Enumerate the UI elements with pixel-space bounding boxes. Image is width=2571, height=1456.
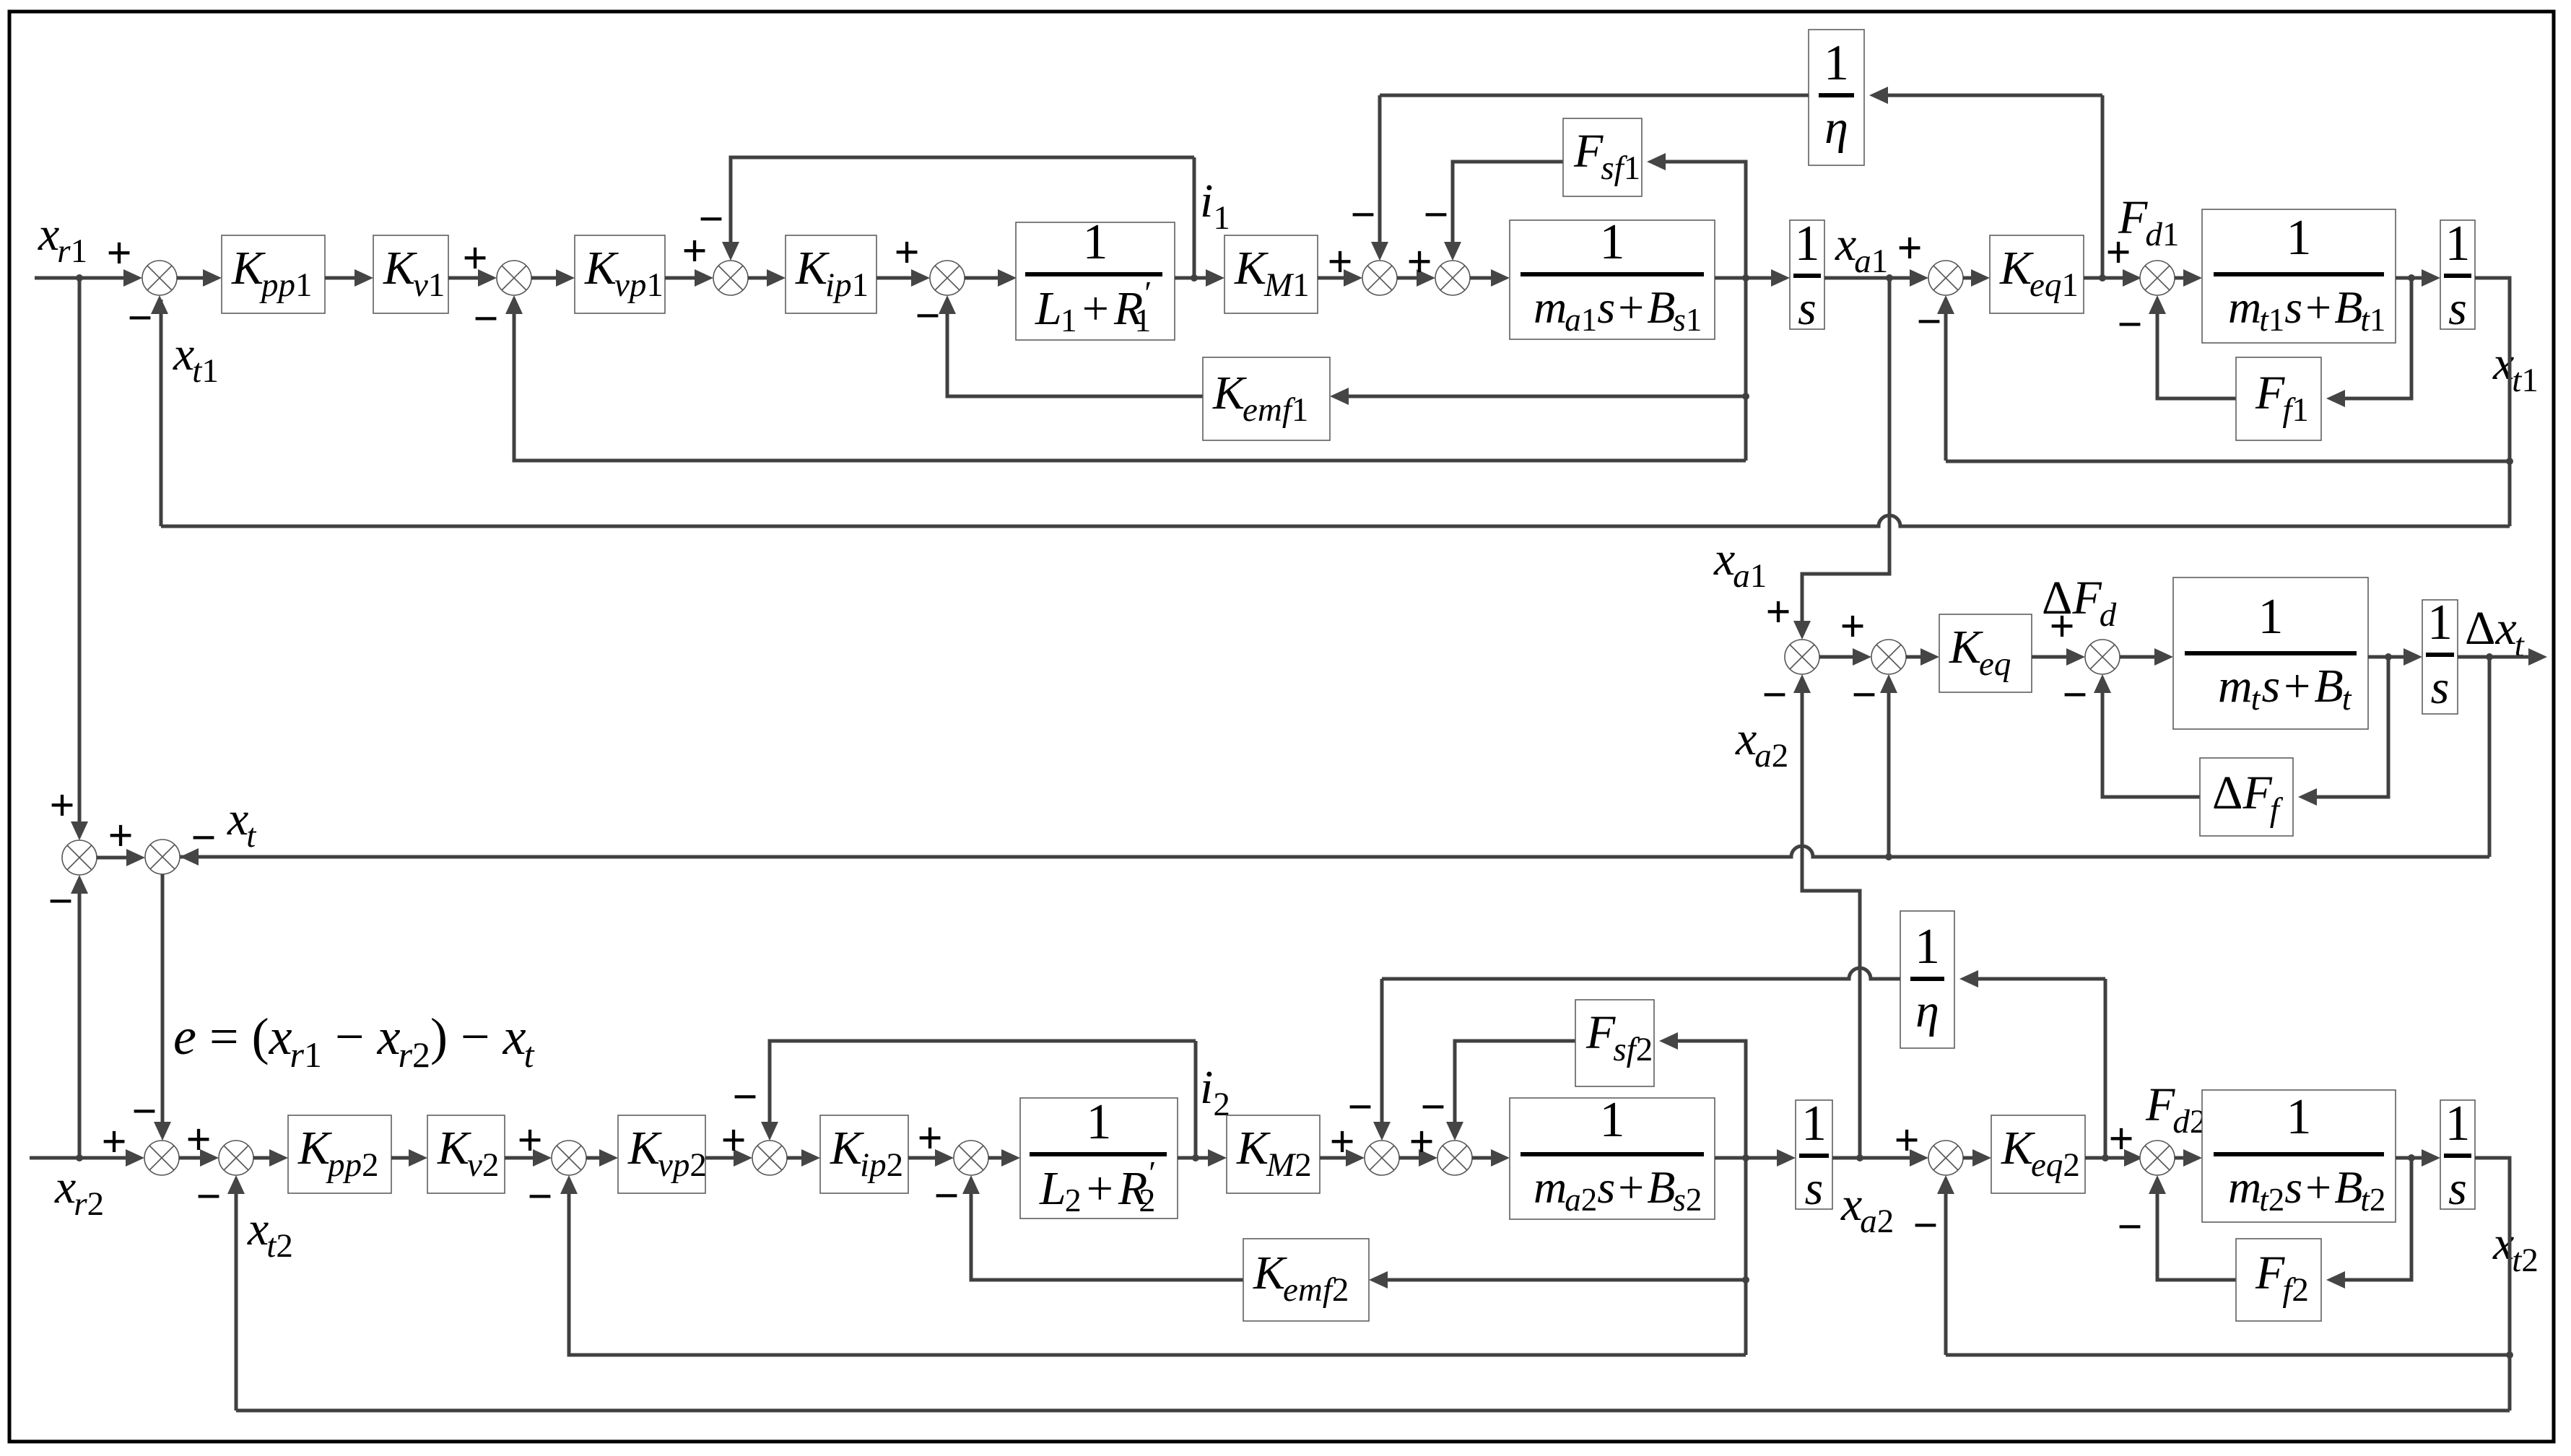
sum D7 minus sign — [1420, 1083, 1445, 1132]
wire D3 to Kvp2 — [586, 1149, 618, 1167]
sum S4 minus sign — [915, 292, 940, 341]
svg-text:−: − — [732, 1073, 757, 1122]
sum B plus sign — [108, 811, 133, 860]
wire i2 junction riser — [1194, 1041, 1198, 1158]
sum C3 minus sign — [2062, 671, 2087, 720]
sum D1 minus sign — [131, 1087, 157, 1136]
wire 1/eta2 output to D6 — [1382, 968, 1900, 979]
svg-text:1: 1 — [2287, 1089, 2312, 1145]
wire velocity node riser to Fsf1 — [1647, 153, 1749, 461]
svg-text:+: + — [1897, 224, 1922, 273]
block KM2 — [1227, 1115, 1320, 1193]
sum S3 — [713, 261, 748, 295]
svg-text:1: 1 — [1600, 1092, 1625, 1148]
wire B down to D1 (error e) — [154, 874, 171, 1141]
sum S4 plus sign — [894, 228, 919, 277]
sum C2 plus sign — [1840, 602, 1865, 651]
sum A minus sign — [48, 877, 73, 926]
sum E7 — [1928, 1141, 1963, 1175]
svg-text:1: 1 — [1087, 1094, 1112, 1150]
block 1/eta (2) — [1900, 911, 1954, 1048]
sum B — [145, 840, 180, 874]
svg-text:1: 1 — [2427, 595, 2453, 650]
wire eta riser — [2101, 95, 2105, 278]
svg-text:mt2s+Bt2: mt2s+Bt2 — [2228, 1161, 2385, 1218]
sum C2 minus sign — [1851, 671, 1876, 720]
block Kv1 — [373, 235, 448, 313]
wire mt2 to integrator with Ff2 junction — [2396, 1149, 2440, 1167]
wire E8 to mt2 block — [2175, 1149, 2202, 1167]
wire middle output — [2458, 648, 2547, 666]
wire xt1 output corner — [2475, 278, 2513, 526]
node xt1 feedback label — [173, 328, 219, 390]
svg-text:+: + — [101, 1117, 126, 1167]
sum D3 plus sign — [517, 1116, 542, 1165]
svg-text:mt1s+Bt1: mt1s+Bt1 — [2228, 282, 2385, 338]
wire S8 to mt1 block — [2175, 269, 2202, 287]
sum C2 — [1871, 640, 1906, 674]
sum E8 plus sign — [2108, 1115, 2133, 1164]
sum D2 — [219, 1141, 253, 1175]
node xt1 output label — [2492, 337, 2539, 399]
node dxt label — [2465, 602, 2525, 664]
wire Ff1 output into S8 — [2149, 295, 2236, 398]
svg-text:1: 1 — [1801, 1096, 1827, 1151]
wire Kv1 to S2 — [448, 269, 497, 287]
svg-text:−: − — [1423, 191, 1448, 240]
node xa1 label row1 — [1835, 218, 1888, 280]
block Fsf2 — [1575, 1000, 1654, 1086]
wire xt1 up into S1 — [151, 295, 168, 526]
svg-text:+: + — [1840, 602, 1865, 651]
svg-text:L1+R′1: L1+R′1 — [1035, 274, 1152, 339]
wire D5 to L2R2 block — [988, 1149, 1020, 1167]
svg-text:η: η — [1915, 985, 1939, 1037]
svg-text:s: s — [2448, 282, 2467, 335]
node Fd1 label — [2118, 191, 2179, 253]
block Fsf1 — [1563, 118, 1642, 196]
wire S6 to ma1 block — [1470, 269, 1510, 287]
svg-text:1: 1 — [1600, 214, 1625, 270]
wire Kvp2 to D4 — [705, 1149, 752, 1167]
wire Kemf2 to D5 — [962, 1175, 1243, 1280]
sum D7 plus sign — [1409, 1117, 1434, 1167]
node xr1 input wire — [35, 269, 142, 287]
node i1 label — [1200, 175, 1230, 237]
sum S8 — [2140, 261, 2175, 295]
node xr1 label — [38, 208, 87, 270]
sum S7 plus sign — [1897, 224, 1922, 273]
wire 1/eta output down into S5 — [1371, 95, 1388, 261]
block 1/eta (1) — [1809, 30, 1864, 165]
sum S3 minus sign — [698, 195, 723, 244]
node dFd label — [2042, 572, 2117, 634]
wire mt to integrator with dFf junction — [2368, 648, 2422, 666]
wire Fsf2 output down into D7 — [1446, 1041, 1575, 1141]
wire Kvp1 to S3 — [665, 269, 713, 287]
svg-text:+: + — [49, 781, 74, 830]
svg-text:+: + — [186, 1115, 211, 1164]
sum D5 plus sign — [917, 1114, 942, 1163]
wire Kemf1 to S4 — [939, 295, 1203, 396]
wire C1 to C2 — [1819, 648, 1871, 666]
wire i1 feedback into S3 — [722, 157, 1194, 261]
wire C3 to mt block — [2120, 648, 2173, 666]
svg-text:−: − — [1347, 1083, 1372, 1132]
wire velocity feedback to S2 — [505, 295, 1746, 461]
block Ff2 — [2236, 1239, 2321, 1321]
wire S5 to S6 — [1397, 269, 1435, 287]
svg-text:+: + — [2049, 602, 2074, 651]
wire integrator to E7 with xa2 junction — [1832, 1149, 1928, 1167]
wire xa2 up to C1 — [1793, 674, 1860, 1158]
wire xt2 up into D2 — [227, 1175, 245, 1411]
sum S5 minus sign — [1350, 191, 1375, 240]
wire Keq1 to S8 with eta junction — [2084, 269, 2141, 287]
wire L1R1 to KM1 with i1 junction — [1175, 269, 1224, 287]
sum S8 plus sign — [2105, 228, 2131, 277]
wire velocity feedback to D3 — [560, 1175, 1746, 1355]
svg-text:−: − — [1420, 1083, 1445, 1132]
block integrator 1/s (2) — [1796, 1096, 1832, 1215]
svg-text:−: − — [2062, 671, 2087, 720]
wire xr1 branch down to A — [71, 278, 88, 840]
svg-text:+: + — [1406, 237, 1432, 287]
block Ff1 — [2236, 357, 2321, 440]
svg-text:1: 1 — [2258, 589, 2284, 645]
wire S1 to Kpp1 — [177, 269, 222, 287]
sum E7 plus sign — [1894, 1116, 1919, 1165]
wire E7 to Keq2 — [1963, 1149, 1991, 1167]
wire KM2 to D6 — [1320, 1149, 1365, 1167]
block 1/(mt1 s + Bt1) — [2202, 209, 2396, 343]
sum S7 minus sign — [1916, 297, 1941, 346]
sum D3 — [552, 1141, 586, 1175]
node Fd2 label — [2145, 1078, 2206, 1141]
wire Kpp2 to Kv2 — [391, 1149, 427, 1167]
sum S6 — [1435, 261, 1470, 295]
node xa1 label middle — [1713, 533, 1767, 595]
wire dFf feedback — [2298, 657, 2388, 806]
svg-text:+: + — [917, 1114, 942, 1163]
svg-text:−: − — [2117, 300, 2142, 349]
wire xt1 feedback into S7 — [1937, 295, 1954, 461]
block 1/(L1+R1) — [1016, 214, 1175, 340]
wire KM1 to S5 — [1318, 269, 1362, 287]
block 1/(ma1 s + Bs1) — [1510, 214, 1715, 339]
node xt label — [227, 793, 256, 855]
wire xa1 down to C1 — [1793, 278, 1889, 640]
node xa2 label middle — [1735, 712, 1788, 775]
wire D4 to Kip2 — [787, 1149, 820, 1167]
wire D2 to Kpp2 — [253, 1149, 288, 1167]
svg-text:+: + — [1765, 588, 1791, 637]
node xr2 input wire — [30, 1149, 144, 1167]
wire into 1/eta block — [1869, 87, 2102, 104]
sum C1 plus sign — [1765, 588, 1791, 637]
sum S1 plus sign — [106, 229, 131, 278]
sum D5 minus sign — [934, 1172, 959, 1221]
sum D4 — [752, 1141, 787, 1175]
wire A to B — [97, 849, 145, 866]
block integrator 1/s (row2 out) — [2440, 1096, 2475, 1215]
wire integrator to S7 with xa1 junction — [1824, 269, 1928, 287]
sum S1 minus sign — [127, 294, 152, 343]
svg-text:−: − — [1350, 191, 1375, 240]
sum S8 minus sign — [2117, 300, 2142, 349]
wire 1/eta output to S5 — [1380, 94, 1809, 97]
sum A plus sign — [49, 781, 74, 830]
sum S3 plus sign — [682, 227, 707, 276]
sum S6 minus sign — [1423, 191, 1448, 240]
wire mt1 to integrator with Ff1 junction — [2396, 269, 2440, 287]
block Keq — [1939, 614, 2032, 692]
svg-text:−: − — [915, 292, 940, 341]
wire S2 to Kvp1 — [531, 269, 575, 287]
block KM1 — [1224, 235, 1318, 313]
sum B minus sign — [191, 814, 216, 863]
wire 1/eta2 output down into D6 — [1373, 979, 1391, 1141]
sum S5 — [1362, 261, 1397, 295]
svg-text:η: η — [1824, 101, 1848, 154]
block integrator 1/s (middle) — [2422, 595, 2458, 714]
sum D1 plus sign — [101, 1117, 126, 1167]
svg-text:−: − — [1851, 671, 1876, 720]
svg-text:−: − — [196, 1172, 221, 1221]
sum S4 — [930, 261, 965, 295]
sum D6 — [1365, 1141, 1399, 1175]
sum A — [62, 840, 97, 875]
block 1/(mt2 s + Bt2) — [2202, 1089, 2396, 1222]
sum D2 plus sign — [186, 1115, 211, 1164]
wire Keq to C3 — [2032, 648, 2085, 666]
sum S2 — [497, 261, 531, 295]
svg-text:1: 1 — [2445, 1096, 2471, 1151]
node xt2 output label — [2492, 1217, 2539, 1279]
block Kvp2 — [618, 1115, 707, 1193]
wire S7 to Keq1 — [1963, 269, 1990, 287]
svg-text:−: − — [698, 195, 723, 244]
wire Ff2 output into E8 — [2149, 1175, 2236, 1280]
wire D7 to ma2 block — [1472, 1149, 1510, 1167]
block integrator 1/s (row1 out) — [2440, 216, 2475, 335]
svg-text:−: − — [2117, 1203, 2142, 1252]
wire D6 to D7 — [1399, 1149, 1437, 1167]
svg-text:s: s — [1798, 282, 1817, 335]
wire xt2 into E7 minus — [1946, 1353, 2510, 1357]
wire Kemf1 feedback — [1330, 388, 1746, 405]
svg-text:−: − — [127, 294, 152, 343]
block Kv2 — [427, 1115, 505, 1193]
node xr2 label — [54, 1161, 104, 1223]
sum D4 minus sign — [732, 1073, 757, 1122]
sum D1 — [144, 1141, 179, 1175]
block Kpp2 — [288, 1115, 391, 1193]
wire Kemf2 feedback — [1369, 1271, 1746, 1289]
sum S2 minus sign — [473, 295, 498, 344]
svg-text:1: 1 — [2445, 216, 2471, 271]
node e equation label — [173, 1008, 535, 1075]
wire Kpp1 to Kv1 — [325, 269, 373, 287]
wire xt arrow into B — [180, 848, 199, 866]
svg-text:−: − — [1916, 297, 1941, 346]
block Keq2 — [1991, 1115, 2085, 1193]
wire xt1 into S7 minus — [1946, 460, 2510, 463]
node xa2 label row2 — [1840, 1178, 1894, 1240]
sum D3 minus sign — [527, 1172, 552, 1221]
svg-text:−: − — [1913, 1201, 1938, 1250]
wire xt long feedback line — [180, 846, 2489, 860]
svg-text:−: − — [1762, 671, 1787, 720]
svg-text:+: + — [462, 234, 487, 283]
wire i2 feedback into D4 — [761, 1041, 1196, 1141]
svg-text:+: + — [517, 1116, 542, 1165]
node xt2 feedback label — [247, 1203, 293, 1265]
block Kip2 — [820, 1115, 908, 1193]
sum S5 plus sign — [1327, 237, 1352, 287]
sum D2 minus sign — [196, 1172, 221, 1221]
block Kemf2 — [1243, 1239, 1369, 1321]
block 1/(mt s + Bt) — [2173, 577, 2368, 729]
wire xt2 output corner — [2475, 1158, 2513, 1411]
svg-text:−: − — [934, 1172, 959, 1221]
sum C3 — [2085, 640, 2120, 674]
block Kpp1 — [222, 235, 325, 313]
svg-text:+: + — [2108, 1115, 2133, 1164]
sum S7 — [1928, 261, 1963, 295]
wire xt2 feedback into E7 — [1937, 1175, 1954, 1355]
svg-text:+: + — [894, 228, 919, 277]
svg-text:mts+Bt: mts+Bt — [2218, 660, 2352, 717]
wire D1 to D2 — [179, 1149, 219, 1167]
wire Fsf1 output down into S6 — [1444, 162, 1563, 261]
sum D6 plus sign — [1329, 1117, 1354, 1167]
wire ma1 to integrator with velocity junction — [1715, 269, 1790, 287]
block Kip1 — [786, 235, 876, 313]
wire dFf output into C3 — [2094, 674, 2200, 797]
wire velocity node riser to Fsf2 — [1659, 1032, 1749, 1355]
wire Ff2 feedback — [2326, 1158, 2411, 1289]
sum C1 minus sign — [1762, 671, 1787, 720]
svg-text:1: 1 — [1915, 919, 1940, 975]
svg-text:−: − — [131, 1087, 157, 1136]
wire dxt down to xt line — [2488, 657, 2492, 857]
wire Kip2 to D5 — [908, 1149, 954, 1167]
wire L2R2 to KM2 with i2 junction — [1178, 1149, 1227, 1167]
sum C1 — [1785, 640, 1819, 674]
wire xr2 branch up to A — [71, 875, 88, 1158]
wire into 1/eta2 block — [1959, 970, 2105, 988]
block Keq1 — [1990, 235, 2084, 313]
sum D4 plus sign — [721, 1116, 746, 1165]
svg-text:s: s — [1805, 1162, 1824, 1215]
block 1/(L2+R2) — [1020, 1094, 1178, 1219]
wire eta2 riser — [2104, 979, 2107, 1158]
sum S6 plus sign — [1406, 237, 1432, 287]
sum D5 — [954, 1141, 988, 1175]
wire Kip1 to S4 — [876, 269, 930, 287]
svg-text:1: 1 — [2287, 210, 2312, 266]
sum D7 — [1437, 1141, 1472, 1175]
sum D6 minus sign — [1347, 1083, 1372, 1132]
svg-text:+: + — [2105, 228, 2131, 277]
sum E7 minus sign — [1913, 1201, 1938, 1250]
svg-text:1: 1 — [1824, 35, 1849, 91]
block dFf — [2200, 758, 2293, 836]
svg-text:−: − — [191, 814, 216, 863]
svg-text:L2+R′2: L2+R′2 — [1039, 1154, 1156, 1219]
svg-text:−: − — [48, 877, 73, 926]
block integrator 1/s (1) — [1790, 216, 1824, 335]
svg-text:+: + — [106, 229, 131, 278]
node i2 label — [1200, 1061, 1230, 1123]
sum S2 plus sign — [462, 234, 487, 283]
wire ma2 to integrator with velocity junction — [1715, 1149, 1796, 1167]
svg-text:s: s — [2448, 1162, 2467, 1215]
wire S3 to Kip1 — [748, 269, 786, 287]
wire S4 to L1R1 block — [965, 269, 1017, 287]
svg-text:+: + — [721, 1116, 746, 1165]
block Kemf1 — [1203, 357, 1330, 440]
block Kvp1 — [575, 235, 665, 313]
svg-text:+: + — [1327, 237, 1352, 287]
wire xt2 long position feedback — [236, 1409, 2510, 1413]
svg-text:−: − — [527, 1172, 552, 1221]
wire xt up into C2 — [1880, 674, 1897, 857]
wire Ff1 feedback — [2326, 278, 2411, 407]
sum S1 — [142, 261, 177, 295]
wire i1 junction riser — [1193, 157, 1196, 278]
sum C3 plus sign — [2049, 602, 2074, 651]
wire C2 to Keq — [1906, 648, 1939, 666]
wire xt1 long position feedback — [161, 515, 2510, 526]
svg-text:e = (xr1 − xr2) − xt: e = (xr1 − xr2) − xt — [173, 1008, 535, 1075]
svg-text:s: s — [2431, 661, 2450, 714]
block 1/(ma2 s + Bs2) — [1510, 1092, 1715, 1219]
svg-text:1: 1 — [1795, 216, 1820, 271]
wire Kv2 to D3 — [505, 1149, 552, 1167]
svg-text:+: + — [108, 811, 133, 860]
svg-text:−: − — [473, 295, 498, 344]
sum E8 — [2140, 1141, 2175, 1175]
svg-text:+: + — [1894, 1116, 1919, 1165]
sum E8 minus sign — [2117, 1203, 2142, 1252]
wire Keq2 to E8 with eta junction — [2085, 1149, 2143, 1167]
svg-text:1: 1 — [1083, 214, 1108, 270]
